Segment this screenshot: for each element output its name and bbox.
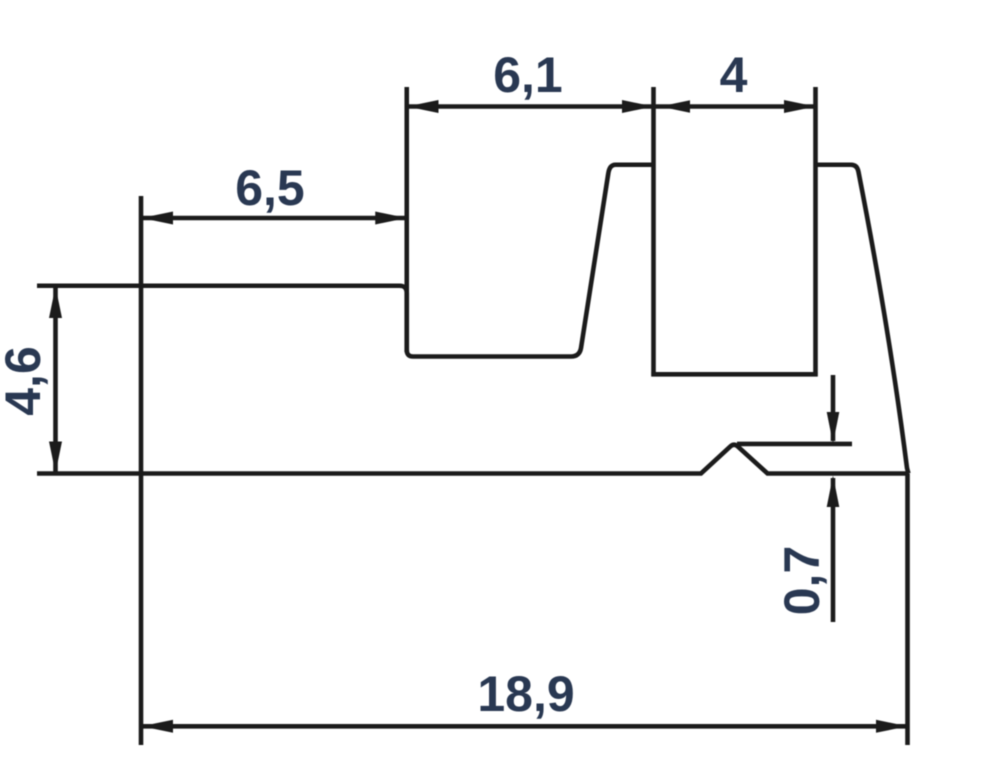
right extension line x=907.5 bbox=[905, 474, 910, 746]
dimension line 0,7 lower segment bbox=[831, 478, 836, 622]
arrowhead 18,9 left bbox=[142, 720, 174, 733]
svg-text:6,5: 6,5 bbox=[235, 160, 305, 216]
arrowhead 0,7 bottom (pointing up) bbox=[827, 476, 840, 508]
notch floor and left tooth slanted edge up to tooth top bbox=[407, 165, 654, 357]
dimension line 6,1 and 4 bbox=[407, 104, 816, 109]
arrowhead 4 right bbox=[784, 100, 816, 113]
arrowhead 6,1 right bbox=[622, 100, 654, 113]
left edge / extension line x=141 bbox=[139, 196, 144, 745]
arrowhead 4 left bbox=[660, 100, 690, 113]
extension line for 0,7 at bump top bbox=[737, 442, 852, 447]
dimension line 4,6 bbox=[53, 286, 58, 474]
dimension line 18,9 bbox=[141, 724, 908, 729]
slot floor bbox=[651, 372, 817, 377]
arrowhead 6,5 left bbox=[142, 212, 174, 225]
dimension line 6,5 bbox=[141, 216, 407, 221]
slot left wall / extension line x=406.75 bbox=[404, 87, 409, 352]
arrowhead 6,5 right bbox=[375, 212, 407, 225]
svg-text:4,6: 4,6 bbox=[0, 346, 51, 416]
svg-text:4: 4 bbox=[720, 47, 748, 103]
arrowhead 4,6 top bbox=[49, 287, 62, 319]
svg-text:18,9: 18,9 bbox=[477, 666, 574, 722]
right tooth top and right slanted edge bbox=[816, 165, 909, 474]
bottom profile line with bump and left extension bbox=[37, 445, 909, 474]
arrowhead 0,7 top (pointing down) bbox=[827, 412, 840, 444]
slot wall / extension line x=653.5 bbox=[651, 87, 656, 376]
arrowhead 18,9 right bbox=[876, 720, 908, 733]
svg-text:0,7: 0,7 bbox=[774, 546, 830, 616]
slot wall / extension line x=815.5 bbox=[813, 87, 818, 376]
dimension line 0,7 upper segment bbox=[831, 375, 836, 441]
arrowhead 6,1 left bbox=[407, 100, 439, 113]
arrowhead 4,6 bottom bbox=[49, 442, 62, 474]
svg-text:6,1: 6,1 bbox=[493, 47, 563, 103]
profile top shelf line with left extension and corner into notch wall bbox=[37, 286, 407, 352]
